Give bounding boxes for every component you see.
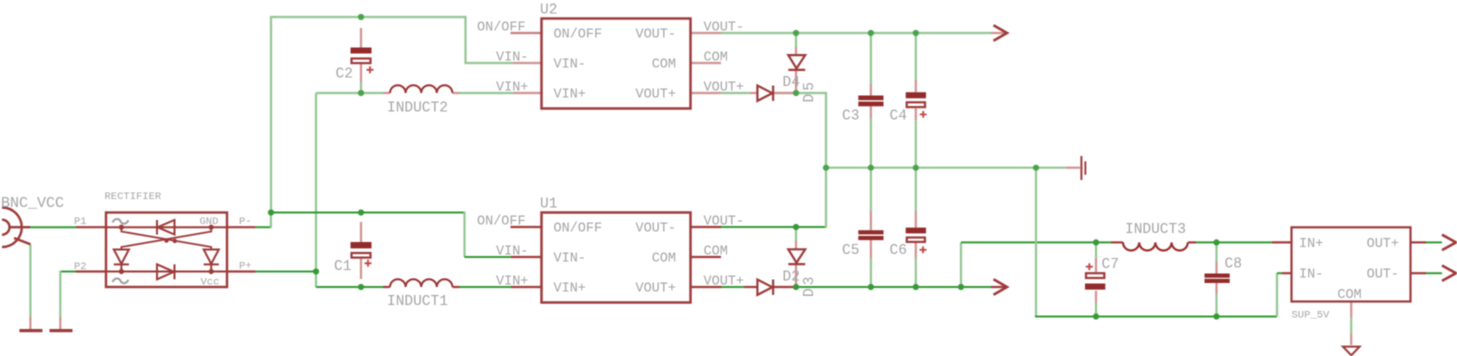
label INDUCT2 xyxy=(387,101,448,117)
rectifier cross wires xyxy=(121,227,211,249)
svg-text:VIN+: VIN+ xyxy=(496,275,528,290)
svg-text:RECTIFIER: RECTIFIER xyxy=(105,191,162,203)
svg-text:VOUT+: VOUT+ xyxy=(635,88,676,103)
label D5 rotated xyxy=(802,79,818,102)
IC box U1 xyxy=(542,213,691,303)
wire bottom bus riser to IN- xyxy=(1277,273,1282,316)
svg-text:ON/OFF: ON/OFF xyxy=(477,21,526,36)
pin stubs pink: C2 C1 xyxy=(360,28,362,279)
svg-text:C5: C5 xyxy=(842,243,859,259)
rectifier diode left vertical (points down) xyxy=(114,250,129,272)
svg-text:COM: COM xyxy=(704,51,728,66)
pin stubs pink: diodes D4 D5 xyxy=(750,47,796,93)
svg-text:VOUT+: VOUT+ xyxy=(704,275,745,290)
pin stubs diode D2 horizontal dark xyxy=(744,286,796,288)
wire P- bus y=212.5 to U1 VIN- xyxy=(271,212,514,258)
wire OUT+ short segment xyxy=(1426,241,1442,243)
svg-text:C4: C4 xyxy=(890,109,907,125)
regulator inside pin names xyxy=(1299,237,1399,303)
wire C5 vertical x=870.9 xyxy=(870,168,872,287)
pin stubs pink: INDUCT2 leads xyxy=(383,92,460,94)
svg-text:C8: C8 xyxy=(1225,257,1242,273)
capacitor C8 xyxy=(1205,274,1230,284)
wire OUT- short segment xyxy=(1426,272,1442,274)
junction dots green lower xyxy=(268,209,1220,319)
rectifier AC squiggle top xyxy=(113,219,129,224)
wire C8 vertical x=1216.5 xyxy=(1215,242,1217,316)
label D2 xyxy=(783,270,800,286)
svg-text:VIN-: VIN- xyxy=(554,58,586,73)
pin label Vcc xyxy=(201,277,220,289)
ground symbol at P2 xyxy=(50,329,73,332)
rectifier AC squiggle bottom xyxy=(113,278,129,283)
label C4 xyxy=(890,109,907,125)
wire U2 VIN+ row from P+ vertical xyxy=(316,82,514,93)
pin stubs pink: arrow VOUT- gnd symbols COM pin xyxy=(30,33,1351,345)
pin stubs diode D3 vertical pink xyxy=(795,241,797,287)
svg-text:VIN+: VIN+ xyxy=(496,81,528,96)
svg-text:IN-: IN- xyxy=(1299,268,1323,283)
ground symbol right (rotated) xyxy=(1080,156,1086,180)
capacitor C1 (polarized) xyxy=(351,242,372,267)
svg-text:C1: C1 xyxy=(334,259,351,275)
svg-text:SUP_5V: SUP_5V xyxy=(1292,310,1331,322)
svg-text:ON/OFF: ON/OFF xyxy=(554,28,603,43)
wire U2 VOUT- row to arrow xyxy=(721,32,991,34)
svg-text:U2: U2 xyxy=(540,3,557,19)
regulator box SUP_5V xyxy=(1292,227,1411,301)
svg-text:ON/OFF: ON/OFF xyxy=(554,222,603,237)
label C1 xyxy=(334,259,351,275)
rectifier diode top (points left) xyxy=(157,220,175,235)
inductor INDUCT2 xyxy=(390,85,452,93)
rectifier diode bottom (points right) xyxy=(157,264,175,279)
svg-text:C2: C2 xyxy=(336,67,353,83)
label D3 rotated xyxy=(802,274,818,297)
wire P- link from rectifier xyxy=(256,213,271,229)
pin stubs pink: C3 C4 C5 C6 xyxy=(871,80,916,258)
wire BNC shield ground drop xyxy=(29,244,31,317)
svg-text:IN+: IN+ xyxy=(1299,237,1323,252)
svg-text:VOUT+: VOUT+ xyxy=(635,282,676,297)
label U1 xyxy=(540,197,557,213)
wire U1 VOUT- row to COM bus riser xyxy=(721,168,826,228)
label C6 xyxy=(890,243,907,259)
pin label P2 xyxy=(74,261,87,273)
capacitor C7 (polarized, plus up) xyxy=(1085,263,1105,289)
svg-text:OUT+: OUT+ xyxy=(1367,237,1399,252)
wire P1 BNC to rectifier xyxy=(30,226,76,228)
wire-end arrow VOUT+ bottom xyxy=(994,279,1008,294)
label C8 xyxy=(1225,257,1242,273)
diode D3 (points down) xyxy=(788,249,805,264)
svg-text:VIN-: VIN- xyxy=(554,252,586,267)
svg-text:VOUT-: VOUT- xyxy=(635,28,676,43)
pin stubs dark: arrow VOUT+ and regulator pins xyxy=(991,242,1426,287)
svg-text:P+: P+ xyxy=(239,261,252,273)
supply arrow down at COM xyxy=(1343,347,1360,356)
U1 outside net labels xyxy=(477,215,744,290)
label RECTIFIER xyxy=(105,191,162,203)
svg-text:ON/OFF: ON/OFF xyxy=(477,215,526,230)
pin label GND xyxy=(200,216,219,228)
wire COM bus to bottom bus riser x=1036 xyxy=(1035,168,1277,317)
svg-text:INDUCT1: INDUCT1 xyxy=(387,294,448,310)
U1 inside pin names xyxy=(554,222,677,297)
wire C4 vertical x=915.8 xyxy=(915,33,917,168)
diode D5 (points down) xyxy=(788,55,805,70)
wire U2 VOUT+ row xyxy=(721,93,826,168)
label BNC_VCC xyxy=(1,195,64,212)
svg-text:VOUT+: VOUT+ xyxy=(704,81,745,96)
svg-text:VIN-: VIN- xyxy=(496,245,528,260)
svg-text:COM: COM xyxy=(1337,288,1361,303)
label INDUCT1 xyxy=(387,294,448,310)
rectifier box xyxy=(106,213,227,288)
svg-text:VOUT-: VOUT- xyxy=(635,222,676,237)
rectifier internal top rail xyxy=(106,226,227,228)
wire COM bus y=167.7 xyxy=(826,167,1066,169)
capacitor C4 (polarized) xyxy=(906,92,927,118)
pin label P+ xyxy=(239,261,252,273)
wire diode D5 branch x=796 xyxy=(795,33,797,47)
svg-text:COM: COM xyxy=(652,58,676,73)
label D4 xyxy=(783,75,800,91)
wire-end arrow OUT+ xyxy=(1442,235,1456,250)
pin stubs pink: U2 pins xyxy=(514,33,722,93)
svg-text:OUT-: OUT- xyxy=(1367,268,1399,283)
svg-text:C3: C3 xyxy=(842,109,859,125)
pin stubs dark: INDUCT1 INDUCT3 leads xyxy=(383,242,1196,287)
pin label P- xyxy=(239,216,252,228)
svg-text:BNC_VCC: BNC_VCC xyxy=(1,195,64,212)
IC box U2 xyxy=(542,19,691,109)
wire P2 to rectifier with ground drop xyxy=(60,271,76,318)
U2 outside net labels xyxy=(477,21,744,96)
svg-text:VOUT-: VOUT- xyxy=(704,21,745,36)
wire-end arrow VOUT- top xyxy=(994,25,1008,40)
svg-text:P-: P- xyxy=(239,216,252,228)
ground symbol at BNC shield xyxy=(19,329,42,332)
svg-text:D4: D4 xyxy=(783,75,800,91)
svg-text:VIN-: VIN- xyxy=(496,51,528,66)
svg-text:C6: C6 xyxy=(890,243,907,259)
label C2 xyxy=(336,67,353,83)
diode D4 (points right) xyxy=(757,86,773,101)
svg-text:U1: U1 xyxy=(540,197,557,213)
wire U1 VIN+ row segments xyxy=(361,286,514,288)
svg-text:VIN+: VIN+ xyxy=(554,282,586,297)
wire C6 vertical x=915.8 xyxy=(915,168,917,287)
label C7 xyxy=(1102,257,1119,273)
svg-text:Vcc: Vcc xyxy=(201,277,220,289)
svg-text:COM: COM xyxy=(652,252,676,267)
svg-text:INDUCT2: INDUCT2 xyxy=(387,101,448,117)
capacitor C6 (polarized) xyxy=(906,228,927,254)
pin stubs dark: U1 pins xyxy=(511,227,722,287)
diode D2 (points right) xyxy=(757,280,773,295)
label SUP_5V xyxy=(1292,310,1331,322)
label C5 xyxy=(842,243,859,259)
pin stub medium: U2 ON/OFF xyxy=(511,32,542,34)
inductor INDUCT3 (arcs bulge down) xyxy=(1123,242,1188,250)
label C3 xyxy=(842,109,859,125)
svg-text:VOUT-: VOUT- xyxy=(704,215,745,230)
svg-text:D5: D5 xyxy=(802,79,818,102)
svg-text:P1: P1 xyxy=(74,216,87,228)
pin stubs dark: rectifier pins P1 P2 P- P+ xyxy=(76,227,256,271)
svg-text:D3: D3 xyxy=(802,274,818,297)
svg-text:D2: D2 xyxy=(783,270,800,286)
svg-text:C7: C7 xyxy=(1102,257,1119,273)
label U2 xyxy=(540,3,557,19)
wire P+ link from rectifier xyxy=(256,271,316,273)
inductor INDUCT1 xyxy=(390,279,452,287)
pin label P1 xyxy=(74,216,87,228)
U2 inside pin names xyxy=(554,28,677,103)
svg-text:VIN+: VIN+ xyxy=(554,88,586,103)
pin stubs pink: C7 C8 xyxy=(1096,258,1217,303)
svg-text:COM: COM xyxy=(704,245,728,260)
wire branch x=961 up to IN+ row xyxy=(961,242,1090,286)
wire-end arrow OUT- xyxy=(1442,266,1456,281)
rectifier internal bottom rail xyxy=(106,271,227,273)
svg-text:P2: P2 xyxy=(74,261,87,273)
wire U1 VOUT+ row to arrow xyxy=(721,286,991,288)
wire diode D3 branch x=796 xyxy=(795,227,797,241)
wire C7 vertical x=1096 xyxy=(1095,242,1097,316)
junction dots green upper xyxy=(358,14,1039,171)
BNC connector BNC_VCC xyxy=(2,208,30,248)
capacitor C2 (polarized) xyxy=(351,48,374,74)
capacitor C5 xyxy=(858,230,883,240)
wire IN+ row through INDUCT3 xyxy=(1090,241,1272,243)
rectifier junction dots xyxy=(119,225,214,275)
rectifier diode right vertical (points down) xyxy=(204,250,219,272)
wire top bus P+ to U2 VIN- area xyxy=(271,17,514,213)
wire C3 vertical x=870.9 xyxy=(870,33,872,168)
label INDUCT3 xyxy=(1125,222,1186,238)
wire P+ vertical riser x=316 xyxy=(316,93,361,287)
capacitor C3 xyxy=(858,96,883,107)
svg-text:GND: GND xyxy=(200,216,219,228)
svg-text:INDUCT3: INDUCT3 xyxy=(1125,222,1186,238)
wire COM pin of SUP_5V regulator xyxy=(1350,318,1352,334)
